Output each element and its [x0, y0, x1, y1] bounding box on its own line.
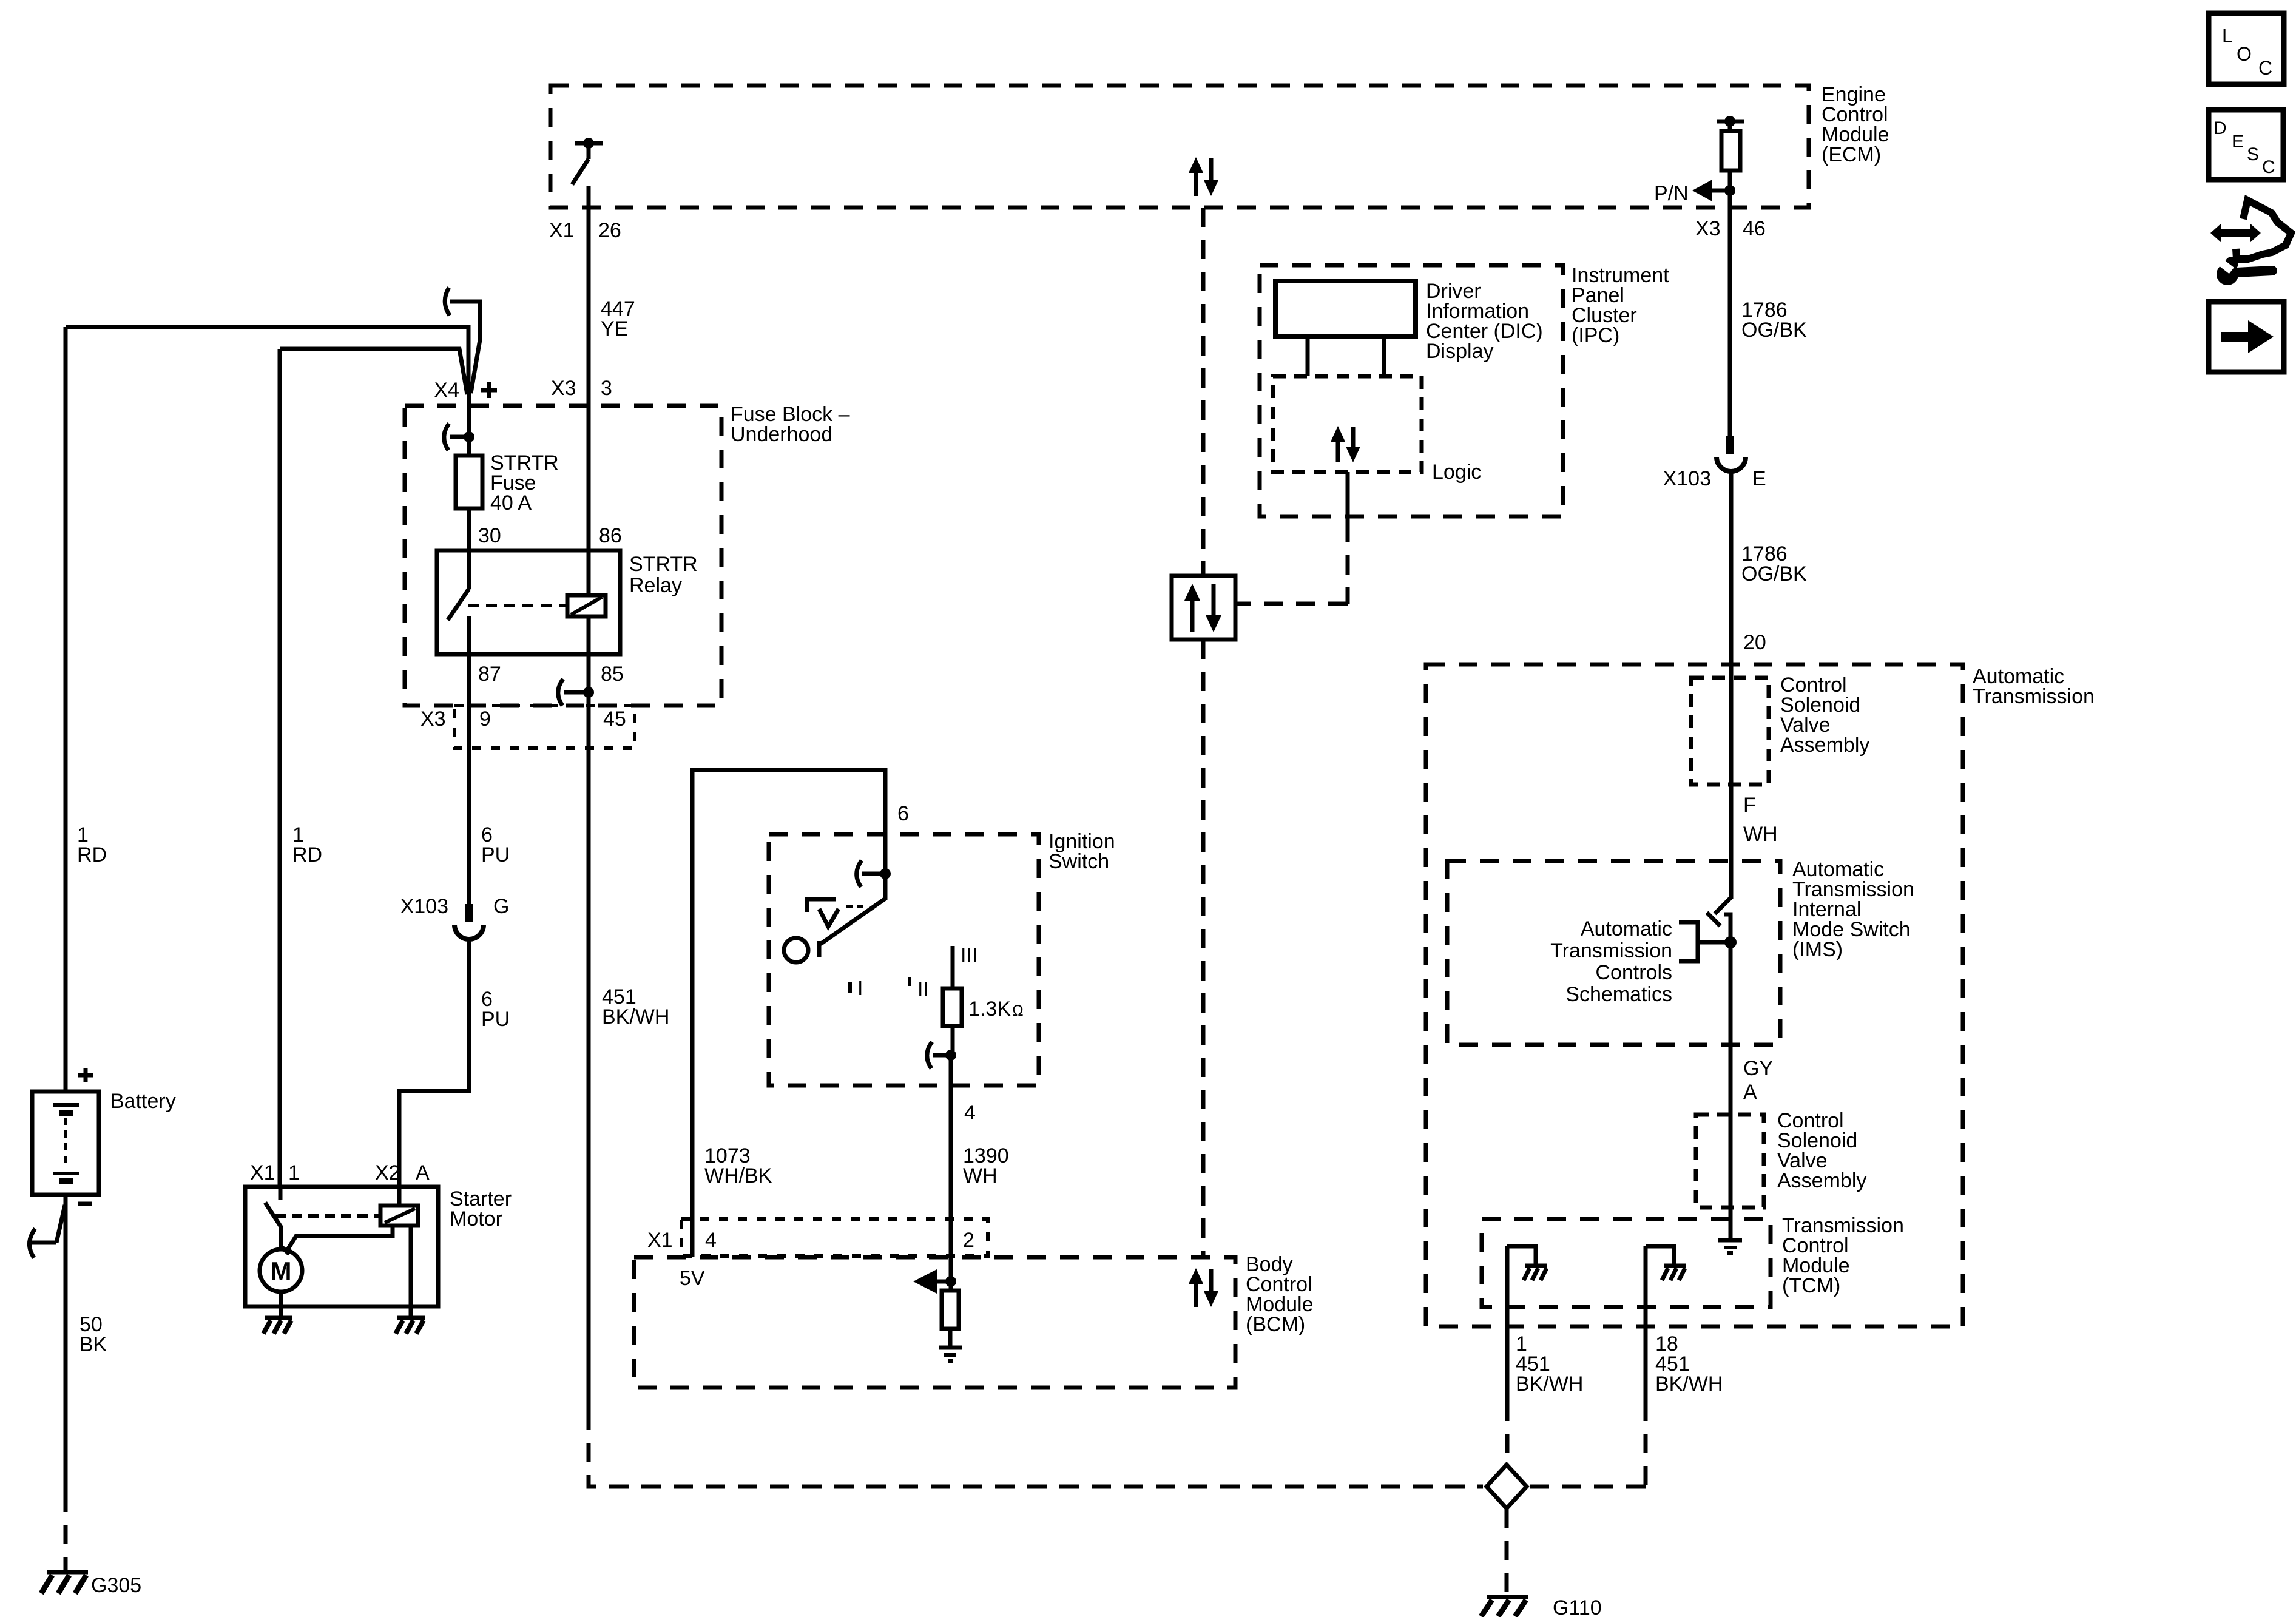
- wire TCM pin 1 to G110 splice (451 BK/WH): [1505, 1246, 1510, 1465]
- svg-text:Transmission: Transmission: [1550, 939, 1672, 962]
- svg-text:F: F: [1743, 794, 1756, 817]
- Driver Information Center (DIC) Display: [1275, 280, 1543, 363]
- svg-text:45: 45: [603, 707, 626, 731]
- svg-text:Display: Display: [1426, 340, 1493, 363]
- svg-text:(ECM): (ECM): [1822, 143, 1881, 166]
- svg-text:I: I: [857, 977, 863, 1000]
- diagnostic tool icon: [2210, 200, 2291, 285]
- BCM internal ground: [939, 1348, 962, 1361]
- DESC icon box: [2209, 110, 2283, 180]
- wire ignition pin 4 to BCM X1-2 (1390 WH): [949, 1055, 953, 1257]
- svg-text:X1: X1: [647, 1229, 673, 1252]
- starter solenoid coil: [380, 1206, 418, 1226]
- svg-text:STRTR: STRTR: [629, 553, 698, 576]
- svg-text:X1: X1: [549, 219, 575, 242]
- svg-text:M: M: [271, 1257, 292, 1285]
- inline connector at ignition pin 6: [857, 860, 891, 887]
- svg-text:GY: GY: [1743, 1057, 1773, 1080]
- wire label 1786 OG/BK: [1741, 542, 1807, 586]
- wire battery positive to X4 (1 RD): [64, 327, 68, 1092]
- solenoid contact feed to motor: [287, 1226, 393, 1251]
- svg-text:Transmission: Transmission: [1973, 685, 2095, 708]
- svg-text:85: 85: [601, 663, 624, 686]
- svg-text:(TCM): (TCM): [1782, 1274, 1840, 1297]
- wire motor to ground: [279, 1292, 283, 1318]
- svg-text:G110: G110: [1553, 1596, 1602, 1617]
- svg-text:(IMS): (IMS): [1792, 938, 1843, 961]
- Control Solenoid Valve Assembly (upper): [1691, 673, 1869, 785]
- svg-text:S: S: [2247, 144, 2259, 164]
- svg-text:Switch: Switch: [1048, 850, 1109, 873]
- svg-text:III: III: [961, 944, 977, 967]
- wire X103-E to IMS (1786 OG/BK): [1729, 470, 1734, 899]
- wire label 1073 WH/BK: [704, 1144, 772, 1187]
- BCM pull-down resistor: [942, 1257, 959, 1346]
- svg-text:OG/BK: OG/BK: [1741, 319, 1807, 342]
- TCM ground pin 18: [1646, 1246, 1686, 1280]
- svg-text:L: L: [2222, 25, 2233, 47]
- svg-text:5V: 5V: [680, 1267, 705, 1290]
- svg-text:C: C: [2262, 157, 2275, 177]
- TCM internal ground for IMS circuit: [1718, 1240, 1742, 1253]
- pin label X3 46: [1695, 217, 1766, 240]
- svg-text:X3: X3: [1695, 217, 1721, 240]
- wire 6 PU from X3-9 down: [467, 748, 471, 904]
- svg-text:WH: WH: [963, 1164, 998, 1187]
- svg-text:Assembly: Assembly: [1780, 734, 1869, 757]
- svg-text:X3: X3: [420, 707, 446, 731]
- connector strip X3 (pins 9, 45): [420, 706, 635, 748]
- svg-text:OG/BK: OG/BK: [1741, 562, 1807, 586]
- wire fuse to relay 30: [467, 508, 471, 550]
- starter pin labels X1 1 X2 A: [250, 1161, 430, 1184]
- Automatic Transmission Controls Schematics reference bracket: [1550, 917, 1730, 1006]
- wire relay 85 down: [587, 616, 591, 748]
- svg-text:E: E: [2232, 132, 2244, 152]
- dashed 451 BK/WH run to G110 splice: [589, 1411, 1483, 1487]
- relay coil: [567, 595, 606, 616]
- ECM P/N pull-up resistor: [1717, 116, 1744, 186]
- logic serial arrows: [1331, 426, 1360, 462]
- ECM internal switch (crank request output, pin X1-26): [572, 138, 603, 184]
- connector strip X1 (pins 4, 2): [647, 1219, 988, 1256]
- ECM serial data arrows: [1189, 157, 1218, 196]
- starter motor M: [260, 1249, 302, 1292]
- svg-text:X2: X2: [375, 1161, 400, 1184]
- next-page arrow icon box: [2209, 302, 2284, 372]
- svg-text:RD: RD: [292, 843, 322, 866]
- svg-text:C: C: [2258, 57, 2272, 79]
- wire ECM X3-46 to X103-E (1786 OG/BK): [1728, 191, 1732, 436]
- ignition switch blade: [819, 874, 885, 957]
- svg-text:X4: X4: [434, 379, 459, 402]
- wire label 1390 WH: [963, 1144, 1009, 1187]
- svg-text:46: 46: [1743, 217, 1766, 240]
- svg-text:Controls: Controls: [1595, 961, 1672, 984]
- battery minus sign: [78, 1202, 92, 1206]
- IMS common contact node: [1724, 936, 1737, 948]
- svg-text:BK: BK: [79, 1333, 107, 1356]
- starter solenoid switch: [265, 1187, 289, 1254]
- wire label 1786 OG/BK: [1741, 299, 1807, 342]
- Control Solenoid Valve Assembly (lower): [1696, 1109, 1866, 1207]
- IMS switch blade: [1707, 897, 1731, 941]
- svg-text:(BCM): (BCM): [1246, 1313, 1305, 1336]
- svg-text:BK/WH: BK/WH: [1655, 1372, 1723, 1396]
- Battery: [32, 1090, 176, 1195]
- Automatic Transmission Internal Mode Switch (IMS) box: [1447, 858, 1914, 1045]
- wire solenoid A pin into coil: [397, 1187, 402, 1206]
- key position I: [850, 977, 863, 1000]
- battery plus sign: [78, 1068, 93, 1082]
- wire X4 to starter X1-1 (1 RD): [278, 349, 282, 1187]
- BCM input sense arrow: [913, 1269, 956, 1294]
- node X4 battery positive junction: [66, 288, 497, 437]
- resistor 1.3K ohm: [943, 988, 1024, 1026]
- IPC Logic box: [1273, 376, 1481, 484]
- wire resistor to pin 4: [951, 1026, 955, 1055]
- wire IMS pin A down (GY): [1729, 942, 1733, 1238]
- svg-text:X1: X1: [250, 1161, 275, 1184]
- connector X103 pin G: [400, 895, 510, 939]
- wire label 50 BK: [79, 1313, 107, 1356]
- svg-text:2: 2: [963, 1229, 974, 1252]
- svg-text:Underhood: Underhood: [731, 423, 832, 446]
- serial data wire splice box to BCM: [1201, 640, 1206, 1257]
- DIC display legs: [1308, 336, 1384, 376]
- starter solenoid ground: [396, 1318, 425, 1334]
- svg-text:Automatic: Automatic: [1581, 917, 1672, 940]
- svg-text:X3: X3: [551, 377, 576, 400]
- svg-text:1: 1: [288, 1161, 300, 1184]
- wire relay 87 down (pin X3-9): [467, 616, 471, 748]
- Engine Control Module (ECM) box: [550, 83, 1889, 208]
- svg-text:PU: PU: [481, 1008, 510, 1031]
- starter solenoid dashed linkage: [275, 1214, 380, 1218]
- svg-text:9: 9: [479, 707, 491, 731]
- ground G110: [1481, 1596, 1602, 1617]
- wire X103-G to starter solenoid A: [399, 938, 469, 1187]
- Fuse Block - Underhood box: [405, 403, 850, 706]
- STRTR Relay: [437, 550, 698, 654]
- svg-text:BK/WH: BK/WH: [602, 1005, 669, 1028]
- inline connector at STRTR fuse feed: [444, 424, 474, 450]
- svg-text:BK/WH: BK/WH: [1516, 1372, 1583, 1396]
- connector X103 pin E: [1663, 436, 1766, 490]
- svg-text:X103: X103: [400, 895, 448, 918]
- wire position III to resistor: [951, 946, 955, 988]
- svg-text:Ω: Ω: [1012, 1002, 1024, 1019]
- svg-text:WH: WH: [1743, 823, 1778, 846]
- svg-text:O: O: [2237, 43, 2252, 65]
- Ignition Switch box: [769, 830, 1115, 1085]
- ignition switch rotor contact: [784, 938, 808, 962]
- svg-text:D: D: [2213, 118, 2227, 138]
- serial data splice box: [1172, 576, 1235, 640]
- wire label 18 451 BK/WH: [1655, 1332, 1723, 1396]
- wire label GY / pin label A: [1743, 1057, 1773, 1104]
- svg-text:Motor: Motor: [450, 1207, 502, 1230]
- wire BCM X1-4 to ignition switch pin 6 (1073 WH/BK): [692, 770, 885, 1257]
- STRTR Fuse 40 A: [456, 437, 559, 515]
- relay actuation dashed linkage: [468, 604, 567, 607]
- svg-text:30: 30: [478, 524, 501, 547]
- svg-text:1.3K: 1.3K: [968, 998, 1011, 1021]
- wire logic to serial splice box: [1235, 472, 1348, 604]
- svg-text:40 A: 40 A: [490, 491, 532, 515]
- wire label 1 451 BK/WH: [1516, 1332, 1583, 1396]
- pin labels 87 85: [478, 663, 624, 686]
- Body Control Module (BCM) box: [634, 1253, 1314, 1388]
- wire battery negative down (50 BK): [64, 1195, 68, 1493]
- ignition key symbol: [807, 899, 863, 927]
- svg-text:4: 4: [964, 1101, 976, 1124]
- Transmission Control Module (TCM) box: [1482, 1214, 1904, 1307]
- svg-text:Relay: Relay: [629, 574, 682, 597]
- wire label 447 YE: [601, 297, 635, 340]
- starter motor ground: [263, 1318, 292, 1334]
- svg-text:(IPC): (IPC): [1572, 324, 1619, 347]
- wire TCM pin 18 to G110 splice (451 BK/WH): [1530, 1246, 1646, 1487]
- svg-text:YE: YE: [601, 317, 628, 340]
- BCM serial data arrows: [1189, 1268, 1218, 1307]
- svg-text:E: E: [1752, 467, 1766, 490]
- svg-text:Assembly: Assembly: [1777, 1169, 1866, 1192]
- svg-text:II: II: [917, 978, 929, 1001]
- wire label 1 RD: [77, 823, 107, 866]
- svg-text:G: G: [493, 895, 509, 918]
- key position II: [910, 977, 929, 1001]
- svg-text:WH/BK: WH/BK: [704, 1164, 772, 1187]
- pin labels 30 86: [478, 524, 622, 547]
- wire solenoid to ground: [409, 1226, 413, 1318]
- svg-text:X103: X103: [1663, 467, 1711, 490]
- svg-text:Schematics: Schematics: [1565, 983, 1672, 1006]
- pin label F / wire label WH: [1743, 794, 1778, 846]
- wire ECM X1-26 to relay coil 86 (447 YE): [587, 186, 591, 595]
- svg-text:P/N: P/N: [1654, 182, 1689, 205]
- Instrument Panel Cluster (IPC) box: [1260, 264, 1669, 516]
- relay switch contact: [448, 550, 469, 620]
- serial data wire ECM to splice box: [1201, 208, 1206, 576]
- svg-text:6: 6: [897, 802, 909, 825]
- svg-text:PU: PU: [481, 843, 510, 866]
- Starter Motor box: [245, 1187, 512, 1306]
- svg-text:20: 20: [1743, 631, 1766, 654]
- wire label 6 PU: [481, 823, 510, 866]
- ground G305: [41, 1572, 141, 1597]
- dashed wire to G305: [64, 1493, 68, 1570]
- svg-text:Logic: Logic: [1432, 461, 1481, 484]
- inline connector on battery negative cable: [29, 1205, 65, 1258]
- wire label 451 BK/WH: [602, 985, 669, 1028]
- pin label X1 26: [549, 219, 621, 242]
- wire label 1 RD: [292, 823, 322, 866]
- svg-text:RD: RD: [77, 843, 107, 866]
- svg-text:86: 86: [599, 524, 622, 547]
- svg-text:26: 26: [598, 219, 621, 242]
- inline connector at ignition pin 4: [927, 1042, 956, 1068]
- svg-text:A: A: [1743, 1081, 1757, 1104]
- inline connector on 85 wire: [558, 679, 594, 706]
- svg-text:G305: G305: [91, 1574, 141, 1597]
- svg-text:87: 87: [478, 663, 501, 686]
- wire label 6 PU: [481, 988, 510, 1031]
- Automatic Transmission box: [1426, 664, 2095, 1326]
- LOC icon box: [2209, 13, 2284, 84]
- splice diamond: [1487, 1465, 1527, 1508]
- TCM ground pin 1: [1507, 1246, 1547, 1280]
- dashed wire splice to G110: [1505, 1508, 1509, 1595]
- svg-text:3: 3: [601, 377, 612, 400]
- P/N signal arrow: [1654, 180, 1735, 205]
- svg-text:Battery: Battery: [110, 1090, 176, 1113]
- svg-text:4: 4: [705, 1229, 717, 1252]
- wire 451 BK/WH from X3-45 down: [587, 748, 591, 1411]
- svg-text:A: A: [416, 1161, 430, 1184]
- pin label X3 3: [551, 377, 612, 400]
